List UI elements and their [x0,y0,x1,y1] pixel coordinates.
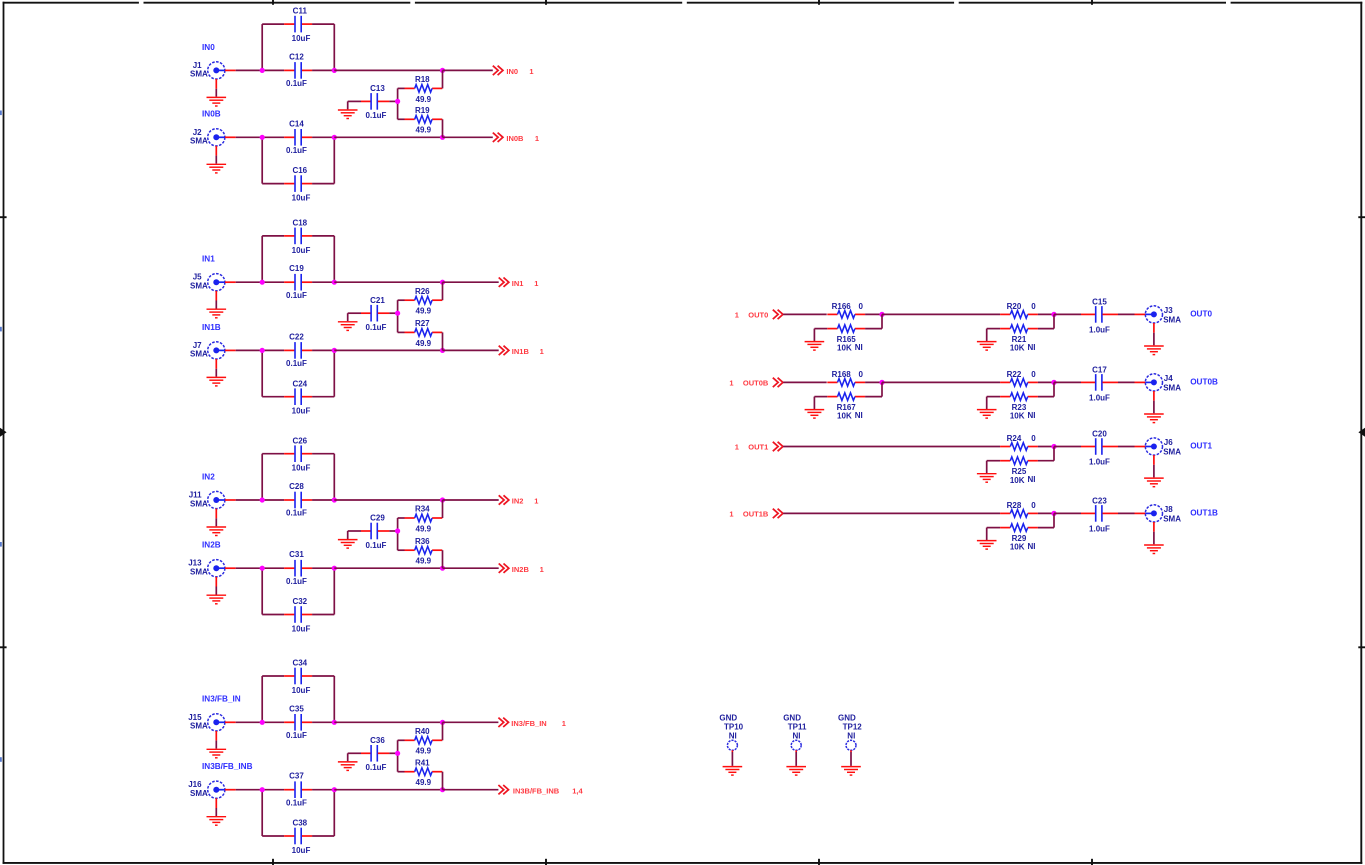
svg-text:0: 0 [1031,370,1036,379]
svg-text:0: 0 [1031,302,1036,311]
svg-text:C13: C13 [370,84,385,93]
svg-text:C19: C19 [289,264,304,273]
svg-text:49.9: 49.9 [416,747,432,756]
svg-text:0: 0 [858,370,863,379]
svg-text:R40: R40 [415,727,430,736]
svg-text:10uF: 10uF [292,34,311,43]
svg-text:R168: R168 [832,370,852,379]
svg-text:R21: R21 [1012,335,1027,344]
svg-text:1.0uF: 1.0uF [1089,524,1110,533]
svg-text:SMA: SMA [190,722,208,731]
svg-text:10uF: 10uF [292,846,311,855]
svg-text:C28: C28 [289,482,304,491]
svg-text:R165: R165 [837,335,857,344]
svg-text:IN1B: IN1B [512,347,530,356]
svg-text:10uF: 10uF [292,194,311,203]
svg-text:C37: C37 [289,772,304,781]
svg-text:49.9: 49.9 [416,307,432,316]
svg-text:10uF: 10uF [292,686,311,695]
svg-text:SMA: SMA [1163,315,1181,324]
svg-text:IN1: IN1 [202,255,215,264]
svg-text:10uF: 10uF [292,464,311,473]
svg-text:0.1uF: 0.1uF [286,79,307,88]
svg-text:0.1uF: 0.1uF [286,146,307,155]
svg-text:R34: R34 [415,505,430,514]
svg-text:NI: NI [855,343,863,352]
svg-text:IN0B: IN0B [202,110,221,119]
svg-text:OUT0B: OUT0B [1190,378,1218,387]
svg-text:NI: NI [1028,542,1036,551]
svg-text:SMA: SMA [1163,514,1181,523]
svg-text:1: 1 [535,134,539,143]
svg-text:1: 1 [540,347,544,356]
svg-text:1: 1 [540,565,544,574]
svg-text:49.9: 49.9 [416,339,432,348]
svg-text:SMA: SMA [190,70,208,79]
svg-text:0.1uF: 0.1uF [286,577,307,586]
svg-text:10uF: 10uF [292,624,311,633]
svg-text:1.0uF: 1.0uF [1089,325,1110,334]
svg-text:0.1uF: 0.1uF [366,111,387,120]
svg-text:R19: R19 [415,106,430,115]
svg-text:C16: C16 [292,166,307,175]
svg-text:1: 1 [735,442,739,451]
svg-text:J16: J16 [188,780,202,789]
svg-text:J2: J2 [193,128,202,137]
svg-text:OUT0: OUT0 [1190,310,1212,319]
svg-text:C31: C31 [289,550,304,559]
svg-text:R26: R26 [415,287,430,296]
svg-text:R24: R24 [1007,434,1022,443]
svg-text:IN0: IN0 [506,67,518,76]
svg-text:NI: NI [729,732,737,741]
svg-text:C15: C15 [1092,298,1107,307]
svg-text:10K: 10K [837,412,852,421]
svg-text:C22: C22 [289,332,304,341]
svg-text:0.1uF: 0.1uF [366,763,387,772]
svg-text:C18: C18 [292,219,307,228]
svg-text:10K: 10K [1010,476,1025,485]
svg-text:C14: C14 [289,119,304,128]
svg-text:SMA: SMA [190,137,208,146]
svg-text:0.1uF: 0.1uF [286,359,307,368]
svg-text:NI: NI [1028,411,1036,420]
svg-text:1.0uF: 1.0uF [1089,458,1110,467]
svg-text:C24: C24 [292,379,307,388]
svg-text:C21: C21 [370,296,385,305]
svg-text:IN2: IN2 [202,472,215,481]
svg-text:R36: R36 [415,537,430,546]
svg-text:J7: J7 [193,341,202,350]
svg-text:J8: J8 [1164,505,1173,514]
svg-text:C17: C17 [1092,366,1107,375]
svg-text:1,4: 1,4 [572,786,583,795]
svg-text:NI: NI [855,411,863,420]
svg-text:R25: R25 [1012,467,1027,476]
svg-text:10K: 10K [837,344,852,353]
svg-text:1: 1 [729,509,733,518]
svg-text:NI: NI [847,732,855,741]
svg-text:J1: J1 [193,61,202,70]
svg-text:C38: C38 [292,819,307,828]
svg-text:SMA: SMA [190,568,208,577]
svg-text:IN1: IN1 [512,279,524,288]
svg-text:C36: C36 [370,736,385,745]
svg-text:49.9: 49.9 [416,778,432,787]
svg-text:SMA: SMA [190,499,208,508]
svg-text:TP12: TP12 [843,723,863,732]
svg-text:SMA: SMA [190,789,208,798]
svg-text:0.1uF: 0.1uF [286,509,307,518]
svg-text:10K: 10K [1010,543,1025,552]
svg-text:R20: R20 [1007,302,1022,311]
svg-text:0.1uF: 0.1uF [286,291,307,300]
svg-text:NI: NI [1028,343,1036,352]
svg-text:NI: NI [793,732,801,741]
svg-text:IN1B: IN1B [202,323,221,332]
svg-text:OUT0B: OUT0B [743,378,769,387]
svg-text:NI: NI [1028,475,1036,484]
svg-text:J4: J4 [1164,374,1173,383]
svg-text:10K: 10K [1010,344,1025,353]
svg-text:C26: C26 [292,436,307,445]
svg-text:R28: R28 [1007,501,1022,510]
svg-text:OUT1B: OUT1B [743,509,769,518]
svg-text:0.1uF: 0.1uF [366,541,387,550]
svg-text:R41: R41 [415,758,430,767]
svg-text:J13: J13 [188,559,202,568]
svg-text:IN2B: IN2B [512,565,530,574]
svg-text:1.0uF: 1.0uF [1089,393,1110,402]
svg-text:49.9: 49.9 [416,126,432,135]
svg-text:10uF: 10uF [292,246,311,255]
svg-text:IN3B/FB_INB: IN3B/FB_INB [513,786,560,795]
svg-text:R27: R27 [415,319,430,328]
svg-text:SMA: SMA [190,350,208,359]
svg-text:C12: C12 [289,52,304,61]
svg-text:49.9: 49.9 [416,95,432,104]
svg-text:0.1uF: 0.1uF [286,798,307,807]
svg-text:J5: J5 [193,273,202,282]
svg-text:R23: R23 [1012,403,1027,412]
svg-text:R166: R166 [832,302,852,311]
svg-text:0: 0 [1031,501,1036,510]
svg-text:C23: C23 [1092,497,1107,506]
svg-text:SMA: SMA [190,282,208,291]
svg-text:IN0: IN0 [202,43,215,52]
svg-text:TP11: TP11 [788,723,807,732]
svg-text:J3: J3 [1164,306,1173,315]
svg-text:IN2: IN2 [512,497,524,506]
svg-text:49.9: 49.9 [416,524,432,533]
svg-text:C34: C34 [292,659,307,668]
svg-text:TP10: TP10 [724,723,744,732]
svg-text:R18: R18 [415,75,430,84]
svg-text:IN3/FB_IN: IN3/FB_IN [202,695,241,704]
svg-text:0.1uF: 0.1uF [286,731,307,740]
svg-text:0: 0 [1031,434,1036,443]
svg-text:IN2B: IN2B [202,541,221,550]
svg-text:IN3/FB_IN: IN3/FB_IN [511,719,546,728]
svg-text:J6: J6 [1164,438,1173,447]
svg-text:R29: R29 [1012,534,1027,543]
svg-text:OUT1: OUT1 [1190,442,1212,451]
svg-text:GND: GND [719,714,737,723]
svg-text:C20: C20 [1092,430,1107,439]
svg-text:SMA: SMA [1163,383,1181,392]
svg-text:10uF: 10uF [292,407,311,416]
svg-text:GND: GND [783,714,801,723]
svg-text:1: 1 [529,67,533,76]
svg-text:IN3B/FB_INB: IN3B/FB_INB [202,762,253,771]
svg-text:1: 1 [735,310,739,319]
svg-text:OUT0: OUT0 [748,310,768,319]
svg-text:C32: C32 [292,597,307,606]
svg-text:49.9: 49.9 [416,557,432,566]
svg-text:R167: R167 [837,403,857,412]
svg-text:1: 1 [534,497,538,506]
svg-text:C29: C29 [370,514,385,523]
svg-text:1: 1 [729,378,733,387]
svg-text:SMA: SMA [1163,447,1181,456]
svg-text:C11: C11 [293,7,308,16]
svg-text:IN0B: IN0B [506,134,524,143]
svg-text:1: 1 [562,719,566,728]
svg-text:J15: J15 [188,713,202,722]
svg-text:C35: C35 [289,704,304,713]
svg-text:0: 0 [858,302,863,311]
svg-text:J11: J11 [189,491,202,500]
svg-text:OUT1B: OUT1B [1190,509,1218,518]
svg-text:10K: 10K [1010,412,1025,421]
svg-text:OUT1: OUT1 [748,442,768,451]
svg-text:0.1uF: 0.1uF [366,323,387,332]
svg-text:GND: GND [838,714,856,723]
svg-text:1: 1 [534,279,538,288]
svg-text:R22: R22 [1007,370,1022,379]
